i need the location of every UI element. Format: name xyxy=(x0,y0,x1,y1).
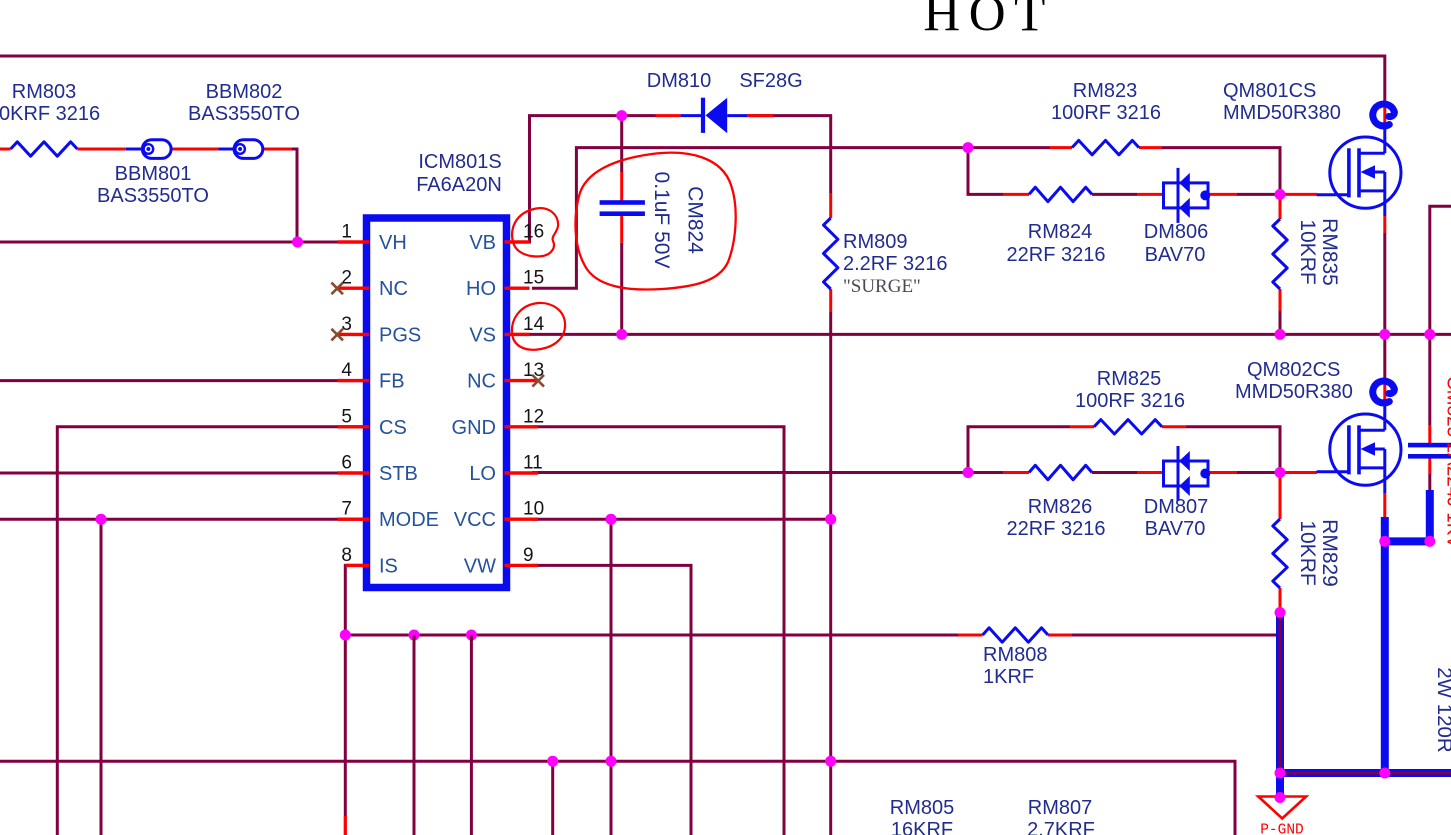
svg-text:CM825 2A224J 1KV: CM825 2A224J 1KV xyxy=(1443,376,1451,548)
svg-text:RM825: RM825 xyxy=(1097,368,1161,390)
pin lead QM801 gate red xyxy=(1280,193,1317,196)
ground P-GND symbol xyxy=(1258,797,1306,835)
svg-text:VB: VB xyxy=(469,232,496,254)
svg-text:RM808: RM808 xyxy=(983,644,1047,666)
wire DM807 to QM802 gate node xyxy=(1237,471,1280,474)
pin lead DM810 anode red xyxy=(656,114,681,117)
wire IS pin8 drop x=345.3 xyxy=(345,565,369,835)
pin lead RM835 bottom red xyxy=(1279,289,1282,311)
junction dot 7 xyxy=(1275,329,1286,340)
wire RM803 row corner to VH node xyxy=(291,149,297,242)
svg-text:GND: GND xyxy=(452,417,496,439)
bus thick blue vertical x=1384.8 QM802 source xyxy=(1381,517,1389,777)
pin leads RM823 xyxy=(1050,146,1072,149)
pin leads RM825 xyxy=(1070,425,1094,428)
wire MODE pin7 row xyxy=(0,518,369,521)
wire cap CM-right upper lead xyxy=(1428,334,1431,425)
svg-text:QM801CS: QM801CS xyxy=(1223,80,1316,102)
svg-text:BAS3550TO: BAS3550TO xyxy=(97,185,209,207)
svg-text:VH: VH xyxy=(379,232,407,254)
svg-text:SF28G: SF28G xyxy=(739,70,802,92)
svg-text:CS: CS xyxy=(379,417,407,439)
pin 5 CS xyxy=(338,406,407,439)
junction dot 16 xyxy=(606,756,617,767)
svg-text:DM806: DM806 xyxy=(1144,221,1208,243)
wire MODE node drop x=101 xyxy=(100,519,103,835)
junction dot 15 xyxy=(547,756,558,767)
svg-text:22RF 3216: 22RF 3216 xyxy=(1007,518,1106,540)
pin lead QM802 gate red xyxy=(1280,471,1317,474)
svg-text:2.7KRF: 2.7KRF xyxy=(1027,819,1095,835)
pin lead RM829 bottom red xyxy=(1279,588,1282,609)
pin leads RM826 row xyxy=(1003,471,1029,474)
junction dot 21 xyxy=(1379,536,1390,547)
wire RM809 column lower part xyxy=(829,312,832,835)
svg-text:NC: NC xyxy=(467,371,496,393)
junction dot 2 xyxy=(616,110,627,121)
svg-text:14: 14 xyxy=(523,314,545,335)
svg-text:BAS3550TO: BAS3550TO xyxy=(188,103,300,125)
svg-text:IS: IS xyxy=(379,555,398,577)
wire HB gate branch corner x=968 xyxy=(968,148,1003,195)
pin lead QM801 source red xyxy=(1383,216,1386,233)
svg-text:10KRF: 10KRF xyxy=(1296,520,1319,585)
svg-text:1KRF: 1KRF xyxy=(983,666,1034,688)
wire DM806 to QM801 gate node xyxy=(1237,193,1280,196)
svg-text:ICM801S: ICM801S xyxy=(418,151,501,173)
svg-text:QM802CS: QM802CS xyxy=(1247,359,1340,381)
svg-text:RM803: RM803 xyxy=(12,81,76,103)
pin 6 STB xyxy=(338,453,418,486)
svg-text:FA6A20N: FA6A20N xyxy=(416,174,502,196)
junction dot 3 xyxy=(616,329,627,340)
pin 3 PGS xyxy=(331,314,421,347)
junction dot 10 xyxy=(825,514,836,525)
svg-text:MMD50R380: MMD50R380 xyxy=(1223,102,1341,124)
resistor RM809 xyxy=(824,218,838,289)
svg-text:11: 11 xyxy=(523,453,543,474)
pin 7 MODE xyxy=(338,499,440,532)
wire DM810 cathode to RM809 top xyxy=(747,116,831,193)
wire drops x=414 x=471.4 below RM808 bus xyxy=(413,635,416,835)
resistor RM829 xyxy=(1273,519,1287,588)
annotation circle around CM824 xyxy=(575,153,735,290)
svg-text:10KRF: 10KRF xyxy=(1296,219,1319,284)
ferrite bead BBM801 xyxy=(142,140,171,159)
pin lead QM802 drain red in coil xyxy=(1383,381,1386,400)
resistor RM826 xyxy=(1029,465,1092,479)
svg-text:22RF 3216: 22RF 3216 xyxy=(1007,244,1106,266)
svg-text:RM835: RM835 xyxy=(1318,218,1341,286)
junction dot 23 xyxy=(1275,768,1286,779)
resistor RM835 xyxy=(1273,219,1287,289)
wire RM808 bus y=635 left part xyxy=(345,634,958,637)
svg-text:100RF 3216: 100RF 3216 xyxy=(1051,102,1161,124)
svg-text:DM810: DM810 xyxy=(647,70,711,92)
pin leads RM824 row xyxy=(1003,193,1029,196)
pin leads RM808 xyxy=(958,634,983,637)
svg-text:10KRF 3216: 10KRF 3216 xyxy=(0,103,100,125)
pin lead IS bottom red xyxy=(344,816,347,835)
svg-text:P-GND: P-GND xyxy=(1260,823,1304,835)
wire LO pin11 row y=472.5 xyxy=(532,471,1003,474)
svg-text:0.1uF 50V: 0.1uF 50V xyxy=(650,172,673,269)
pin lead BBM801 blue stubs xyxy=(126,148,144,151)
wire RM835 lower lead to bus xyxy=(1279,311,1282,334)
svg-text:FB: FB xyxy=(379,371,405,393)
junction dot 6 xyxy=(1275,189,1286,200)
bus maroon core horizontal y=773 xyxy=(1279,772,1451,775)
pin lead RM809 bottom red xyxy=(829,289,832,312)
svg-text:RM807: RM807 xyxy=(1028,797,1092,819)
svg-text:RM823: RM823 xyxy=(1073,80,1137,102)
wire right edge branch y=206.3 xyxy=(1430,206,1451,334)
pin 11 LO xyxy=(469,453,542,486)
bus maroon core vertical x=1280 xyxy=(1279,613,1282,774)
svg-text:DM807: DM807 xyxy=(1144,496,1208,518)
annotation circle around pin 16 xyxy=(512,208,558,256)
wire LO row between RM826 and DM807 xyxy=(1092,471,1137,474)
svg-text:6: 6 xyxy=(341,453,352,474)
svg-text:RM805: RM805 xyxy=(890,797,954,819)
diode DM810 SF28G xyxy=(681,114,705,117)
svg-text:2.2RF 3216: 2.2RF 3216 xyxy=(843,253,948,275)
capacitor CM824 xyxy=(600,200,645,205)
wire ground bus y=761.2 xyxy=(0,761,1235,835)
pin 15 HO xyxy=(466,268,544,301)
pin lead CM824 top red xyxy=(620,172,623,201)
wire FB pin4 row xyxy=(0,379,369,382)
junction dot 25 xyxy=(1275,792,1286,803)
svg-text:BAV70: BAV70 xyxy=(1145,518,1206,540)
junction dot 9 xyxy=(1275,607,1286,618)
wire cap CM-right lower lead xyxy=(1428,474,1431,492)
junction dot 22 xyxy=(1424,536,1435,547)
junction dot 11 xyxy=(606,514,617,525)
junction dot 13 xyxy=(409,630,420,641)
svg-text:12: 12 xyxy=(523,406,544,427)
junction dot 5 xyxy=(963,467,974,478)
mosfet QM802CS MMD50R380 xyxy=(1317,381,1401,493)
svg-text:HOT: HOT xyxy=(923,0,1053,43)
pin leads RM803-BBM801-BBM802 row xyxy=(77,148,126,151)
wire QM801 source to bus xyxy=(1383,233,1386,334)
svg-text:BBM802: BBM802 xyxy=(206,81,283,103)
svg-text:RM809: RM809 xyxy=(843,231,907,253)
resistor RM803 xyxy=(11,142,78,156)
pin lead RM829 top red xyxy=(1279,476,1282,519)
wire VB pin16 to DM810 node xyxy=(505,116,657,242)
svg-text:1: 1 xyxy=(341,222,352,243)
svg-text:PGS: PGS xyxy=(379,324,421,346)
svg-text:VCC: VCC xyxy=(454,509,496,531)
svg-text:VW: VW xyxy=(464,555,496,577)
svg-text:LO: LO xyxy=(469,463,496,485)
svg-text:3: 3 xyxy=(341,314,352,335)
pin leads DM806 right red xyxy=(1208,193,1237,196)
resistor RM823 xyxy=(1072,140,1139,154)
pin 12 GND xyxy=(452,406,545,439)
pin leads DM807 right red xyxy=(1208,471,1237,474)
wire VCC node drop x=611 xyxy=(610,519,613,835)
svg-text:8: 8 xyxy=(341,545,352,566)
wire top HOT bus y=56 xyxy=(0,56,1385,101)
pin 14 VS xyxy=(469,314,544,347)
junction dot 1 xyxy=(292,237,303,248)
pin lead cap-right bottom red xyxy=(1428,457,1431,474)
svg-text:RM824: RM824 xyxy=(1028,221,1092,243)
svg-text:10: 10 xyxy=(523,499,544,520)
svg-text:2: 2 xyxy=(341,268,352,289)
bus thick blue horizontal y=773 xyxy=(1276,769,1451,777)
svg-text:RM829: RM829 xyxy=(1318,519,1341,587)
bus thick blue jumper y=541.4 xyxy=(1381,537,1430,545)
pin 16 VB xyxy=(469,222,544,255)
wire QM802 drain from bus xyxy=(1383,334,1386,379)
junction dot 17 xyxy=(825,756,836,767)
wire CM824 lower lead to VS bus xyxy=(620,243,623,335)
pin 9 VW xyxy=(464,545,538,578)
capacitor right edge xyxy=(1408,443,1451,448)
junction dot 19 xyxy=(1379,329,1390,340)
svg-text:VS: VS xyxy=(469,324,496,346)
svg-text:16KRF: 16KRF xyxy=(891,819,953,835)
svg-text:HO: HO xyxy=(466,278,496,300)
svg-text:CM824: CM824 xyxy=(684,186,707,254)
svg-text:2W 120R: 2W 120R xyxy=(1433,667,1451,752)
dual diode DM806 BAV70 xyxy=(1164,183,1209,208)
svg-text:15: 15 xyxy=(523,268,544,289)
pin lead cap-right top red xyxy=(1428,425,1431,445)
wire VW pin9 row and drop x=691 xyxy=(532,565,691,835)
resistor RM824 xyxy=(1029,187,1092,201)
ferrite bead BBM802 xyxy=(234,140,263,159)
junction dot 8 xyxy=(1275,467,1286,478)
wire STB pin6 row xyxy=(0,472,369,475)
svg-text:NC: NC xyxy=(379,278,408,300)
junction dot 14 xyxy=(466,630,477,641)
svg-text:100RF 3216: 100RF 3216 xyxy=(1075,390,1185,412)
wire CM824 upper lead xyxy=(620,116,623,172)
svg-text:RM826: RM826 xyxy=(1028,496,1092,518)
wire HO pin15 up to HB row xyxy=(532,148,1050,289)
wire RM825 branch up-over-down xyxy=(968,427,1070,473)
svg-text:MMD50R380: MMD50R380 xyxy=(1235,381,1353,403)
svg-text:9: 9 xyxy=(523,545,534,566)
wire RM808 bus right part to blue bus xyxy=(1072,634,1282,637)
junction dot 24 xyxy=(1379,768,1390,779)
annotation circle around pin 14 xyxy=(512,303,565,350)
pin lead RM835 top red xyxy=(1279,198,1282,219)
svg-text:MODE: MODE xyxy=(379,509,439,531)
resistor RM825 xyxy=(1094,420,1162,434)
pin lead RM809 top red xyxy=(829,193,832,218)
wire VH pin1 row xyxy=(0,241,369,244)
wire VS pin14 bus y=334.4 xyxy=(505,333,1451,336)
svg-text:4: 4 xyxy=(341,360,352,381)
pin 13 NC xyxy=(467,360,544,393)
op-amp U1 ICM801S FA6A20N IC body xyxy=(367,218,507,588)
resistor RM808 xyxy=(983,628,1048,642)
svg-text:BBM801: BBM801 xyxy=(115,163,192,185)
wire HB row RM823 right to gate corner xyxy=(1162,148,1280,198)
wire RM825 right to gate node drop xyxy=(1186,427,1280,473)
bus thick blue vertical x=1280 to P-GND xyxy=(1276,613,1284,798)
pin lead CM824 bottom red xyxy=(620,216,623,243)
pin 1 VH xyxy=(338,222,407,255)
svg-text:5: 5 xyxy=(341,406,352,427)
pin 10 VCC xyxy=(454,499,544,532)
junction dot 18 xyxy=(96,514,107,525)
wire drop x=552.7 xyxy=(551,761,554,835)
pin lead RM803 left xyxy=(0,148,11,151)
wire GND pin12 row and drop x=784 xyxy=(532,427,784,835)
pin 4 FB xyxy=(338,360,405,393)
bus thick blue vertical x=1429.8 cap leg xyxy=(1426,490,1434,545)
svg-text:16: 16 xyxy=(523,222,544,243)
mosfet QM801CS MMD50R380 xyxy=(1317,104,1401,216)
junction dot 12 xyxy=(340,630,351,641)
wire CS pin5 row and drop xyxy=(57,427,369,835)
pin 2 NC xyxy=(331,268,407,301)
pin lead DM810 cathode red xyxy=(747,114,773,117)
pin 8 IS xyxy=(341,545,397,578)
junction dot 4 xyxy=(963,142,974,153)
wire VCC pin10 row xyxy=(532,518,831,521)
junction dot 20 xyxy=(1424,329,1435,340)
pin lead QM801 drain red in coil xyxy=(1383,104,1386,124)
dual diode DM807 BAV70 xyxy=(1164,461,1209,486)
svg-text:"SURGE": "SURGE" xyxy=(843,276,921,297)
svg-text:STB: STB xyxy=(379,463,418,485)
pin lead QM802 source red xyxy=(1383,493,1386,517)
svg-text:BAV70: BAV70 xyxy=(1145,244,1206,266)
wire RM824 to DM806 segment xyxy=(1092,193,1137,196)
svg-text:7: 7 xyxy=(341,499,352,520)
